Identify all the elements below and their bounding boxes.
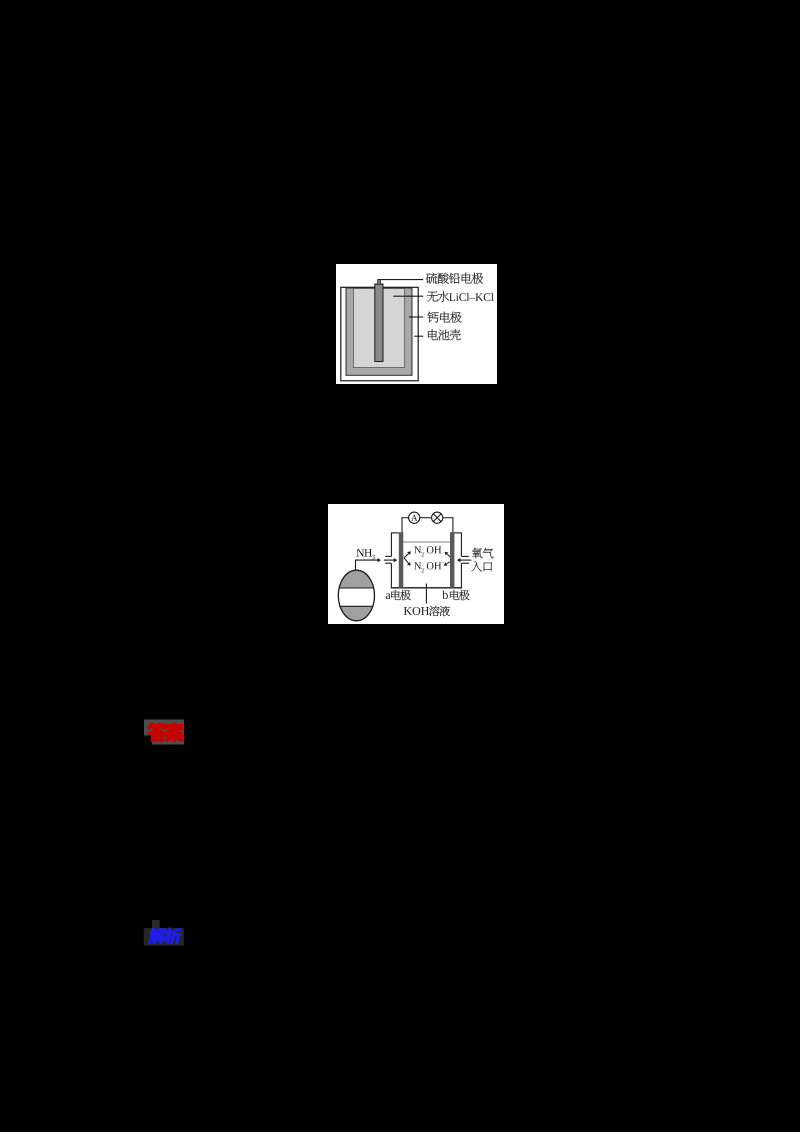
anhydrous LiCl-KCl electrolyte light gray region	[354, 289, 405, 368]
label line to electrolyte	[393, 295, 423, 297]
label line to calcium electrode	[409, 316, 423, 318]
blue tag text 解析	[148, 928, 182, 944]
wire between ammeter and bulb	[420, 517, 432, 519]
label a electrode	[386, 593, 391, 599]
electrolyte surface line	[403, 541, 450, 543]
label 氧气	[472, 548, 482, 559]
label b electrode	[442, 591, 448, 599]
gas storage tank ellipse outline	[338, 570, 374, 621]
cell left wall outer line lower	[390, 563, 392, 588]
label line to battery case	[414, 335, 423, 337]
pipe from gas tank	[356, 560, 358, 570]
electrode terminal neck	[378, 279, 381, 284]
KOH solution pointer line	[425, 584, 427, 604]
cell right wall outer line lower	[460, 563, 462, 588]
label text LiCl-KCl	[449, 293, 455, 301]
label text 钙电极	[428, 312, 439, 323]
arrow a electrode to line1 N2	[404, 554, 409, 558]
ammeter circle	[409, 512, 420, 523]
cell left wall outer line upper	[390, 532, 392, 556]
label KOH solution	[404, 607, 412, 615]
wire from a electrode to ammeter	[402, 518, 409, 533]
NH3 label	[357, 549, 365, 557]
cell right wall outer line upper	[460, 532, 462, 556]
calcium electrode gray cup	[346, 288, 412, 375]
cell left wall top edge	[391, 532, 403, 534]
tank upper chord line	[339, 587, 374, 589]
b electrode dark bar	[450, 532, 454, 587]
label text 硫酸铅电极	[426, 273, 437, 284]
wire from bulb to b electrode	[443, 518, 453, 533]
arrow b electrode to line2 OH	[446, 562, 449, 564]
red answer tag background upper	[144, 720, 184, 736]
bulb circle with cross	[432, 512, 443, 523]
ammeter letter A	[411, 515, 417, 521]
tank lower chord line	[340, 605, 373, 607]
a electrode dark bar	[399, 532, 404, 587]
reaction line 2 N2	[414, 562, 421, 569]
figure 1 white background (thermal battery figure)	[336, 264, 497, 384]
gas storage tank upper gray segment	[339, 570, 374, 588]
reaction line 2 OH-	[427, 562, 434, 569]
red tag text 答案	[148, 723, 167, 741]
blue tag notch	[152, 920, 160, 928]
label 入口	[471, 561, 482, 572]
red answer tag background lower	[152, 736, 184, 745]
figure 2 white background (ammonia fuel cell figure)	[328, 504, 504, 624]
cell right wall top edge	[450, 532, 461, 534]
battery case outer rectangle	[341, 287, 418, 381]
gas storage tank lower gray segment	[340, 606, 373, 620]
label text 电池壳	[428, 329, 438, 340]
label line to lead sulfate electrode	[379, 279, 423, 281]
arrow from tank toward cell	[356, 559, 379, 561]
arrow into a electrode	[384, 559, 395, 561]
arrow a electrode to line2 N2	[404, 558, 409, 563]
lead sulfate electrode dark bar	[375, 284, 383, 362]
arrow b electrode to line1 OH	[447, 554, 450, 557]
reaction line 1 OH	[427, 546, 434, 553]
reaction line 1 N2	[414, 546, 421, 553]
blue analysis tag background	[144, 928, 184, 946]
right inlet port lower line	[461, 562, 469, 564]
cell bottom edge	[391, 587, 462, 589]
label text 无水	[427, 291, 438, 302]
left inlet port lower line	[385, 562, 391, 564]
arrow into b electrode oxygen inlet	[459, 559, 471, 561]
right inlet port upper line	[461, 555, 468, 557]
left inlet port upper line	[385, 555, 391, 557]
